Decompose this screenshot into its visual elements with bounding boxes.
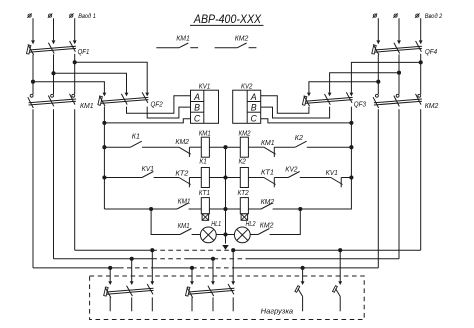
contactor KM1 — [29, 99, 76, 103]
svg-text:В: В — [251, 103, 257, 113]
node bus3 single switch tap — [301, 266, 305, 270]
svg-text:К1: К1 — [199, 157, 206, 166]
node left bus KV1 tap — [102, 121, 106, 125]
wire QF4 pole1 down — [377, 55, 379, 94]
wire — [189, 177, 201, 179]
svg-text:KV2: KV2 — [241, 81, 253, 90]
wire QF1 pole1 down — [32, 55, 34, 94]
svg-text:В: В — [194, 103, 200, 113]
wire QF1 pole3 to QF2 pole3 — [75, 62, 148, 92]
wire KM1 pole3 to bus1 — [74, 109, 76, 250]
svg-text:КТ1: КТ1 — [199, 188, 210, 197]
wire load bus 2 — [54, 258, 153, 260]
svg-text:QF1: QF1 — [78, 47, 90, 56]
input 2 phase terminal 2 — [394, 14, 397, 17]
svg-text:К2: К2 — [239, 157, 247, 166]
wire row2 right — [341, 177, 351, 179]
wire left control bus — [103, 107, 105, 209]
wire KM1 pole1 to bus3 — [32, 109, 34, 268]
svg-text:КМ2: КМ2 — [260, 221, 274, 230]
wire — [209, 208, 240, 210]
wire drop to load switch1 pole2 — [131, 259, 133, 282]
wire row4 branch left — [151, 209, 180, 235]
svg-text:КМ2: КМ2 — [235, 34, 249, 43]
node bus3 drop1 — [108, 266, 112, 270]
svg-text:QF2: QF2 — [151, 100, 164, 109]
wire drop to load switch2 pole3 — [232, 250, 234, 281]
svg-text:КМ2: КМ2 — [425, 101, 439, 110]
svg-text:KV1: KV1 — [142, 164, 154, 173]
wire KM2 pole3 to bus1 — [420, 109, 422, 250]
wire — [192, 234, 201, 236]
wire load bus 1 — [75, 249, 153, 251]
wire — [274, 177, 288, 179]
circuit breaker QF2 — [100, 97, 148, 101]
wire right control bus — [300, 107, 351, 209]
node left bus row2 — [102, 175, 106, 179]
node row3 branch left — [149, 207, 153, 211]
input 2 phase terminal 1 — [373, 14, 376, 17]
wire bus tap to KV1 C — [104, 119, 190, 123]
wire — [216, 234, 234, 236]
wire QF4 pole2 down — [398, 54, 400, 94]
wire — [189, 208, 202, 210]
input 1 phase terminal 3 — [70, 14, 73, 17]
wire drop to single switch1 — [302, 268, 304, 282]
node center bus row4 — [223, 232, 227, 236]
input 2 phase terminal 3 — [416, 14, 419, 17]
svg-text:КТ1: КТ1 — [261, 167, 274, 176]
circuit breaker QF1 — [29, 46, 76, 50]
svg-text:КМ1: КМ1 — [178, 221, 190, 230]
svg-text:С: С — [194, 114, 201, 124]
svg-text:КМ1: КМ1 — [176, 34, 190, 43]
wire — [248, 208, 261, 210]
node bus1 single switch tap — [338, 248, 342, 252]
svg-text:QF4: QF4 — [425, 47, 437, 56]
wire KM2 pole1 to bus3 — [377, 109, 379, 268]
wire — [142, 146, 179, 148]
wire QF1 pole2 to QF2 pole2 — [54, 73, 127, 92]
node bus2 drop2 — [211, 257, 215, 261]
svg-text:Ввод 1: Ввод 1 — [78, 12, 96, 20]
wire center control bus — [225, 147, 227, 243]
wire drop to load switch2 pole2 — [212, 259, 214, 282]
circuit breaker QF3 — [305, 97, 353, 101]
svg-text:Нагрузка: Нагрузка — [261, 309, 294, 316]
wire — [248, 177, 264, 179]
node center bus row2 — [223, 175, 227, 179]
node QF1 pole1 tap — [31, 80, 35, 84]
node right bus row1 — [349, 145, 353, 149]
wire drop to single switch2 — [339, 250, 341, 281]
wire row3 left — [104, 208, 177, 210]
wire — [248, 146, 264, 148]
contactor KM2 — [374, 99, 422, 103]
wire row2 left — [104, 177, 142, 179]
load switch 2 (3-pole) — [188, 288, 234, 292]
node row3 branch right — [298, 207, 302, 211]
wire KM1 pole2 to bus2 — [53, 109, 55, 258]
circuit breaker QF4 — [374, 46, 422, 50]
single load switch 2 — [333, 286, 338, 293]
wire drop to load switch1 pole1 — [109, 268, 111, 282]
node bus1 drop2 — [231, 248, 235, 252]
wire — [209, 177, 240, 179]
wire QF4 pole1 to QF3 pole1 — [309, 82, 378, 93]
svg-text:А: А — [193, 92, 200, 102]
svg-text:КМ1: КМ1 — [178, 196, 191, 205]
node QF4 pole1 tap — [376, 80, 380, 84]
load cabinet dashed box — [90, 276, 365, 320]
svg-text:KV2: KV2 — [285, 165, 298, 174]
svg-text:HL1: HL1 — [211, 219, 221, 228]
svg-text:АВР-400-ХХХ: АВР-400-ХХХ — [193, 12, 262, 26]
wire QF1 pole2 down — [53, 54, 55, 94]
wire — [274, 146, 295, 148]
wire — [250, 234, 258, 236]
node right bus row2 — [349, 175, 353, 179]
svg-text:КМ2: КМ2 — [261, 197, 275, 206]
wire — [300, 177, 331, 179]
node center bus row1 — [223, 145, 227, 149]
wire QF3 pole1 to KV2 A — [261, 96, 309, 114]
svg-text:KV1: KV1 — [326, 168, 338, 177]
wire row1 right — [307, 146, 352, 148]
node bus2 drop1 — [130, 257, 134, 261]
wire KM2 pole2 to bus2 — [398, 109, 400, 258]
wire — [189, 146, 201, 148]
wire QF4 pole2 to QF3 pole2 — [330, 73, 399, 93]
node center bus row3 — [223, 207, 227, 211]
svg-text:К1: К1 — [132, 132, 140, 141]
wire QF1 pole1 to QF2 pole1 — [33, 82, 104, 93]
svg-text:К2: К2 — [295, 133, 304, 142]
wire QF2 pole3 to KV1 B — [147, 107, 190, 118]
single load switch 1 — [295, 286, 300, 293]
input 1 phase terminal 1 — [28, 14, 31, 17]
wire — [209, 146, 240, 148]
svg-text:КМ1: КМ1 — [80, 101, 94, 110]
wire — [154, 177, 179, 179]
svg-text:КМ2: КМ2 — [239, 128, 252, 137]
node QF4 pole2 tap — [397, 71, 401, 75]
svg-text:КМ2: КМ2 — [175, 137, 189, 146]
node QF4 pole3 tap — [419, 60, 423, 64]
wire QF1 pole3 down — [74, 54, 76, 94]
svg-text:А: А — [250, 92, 257, 102]
svg-text:KV1: KV1 — [199, 81, 211, 90]
load switch 1 (3-pole) — [106, 288, 153, 292]
svg-text:Ввод 2: Ввод 2 — [425, 12, 443, 20]
wire QF4 pole3 down — [420, 54, 422, 94]
node QF1 pole3 tap — [73, 60, 77, 64]
svg-text:QF3: QF3 — [354, 100, 367, 109]
node right bus KV2 tap — [349, 121, 353, 125]
node bus1 drop1 — [150, 248, 154, 252]
wire drop to load switch2 pole1 — [191, 268, 193, 282]
wire QF2 pole2 to KV1 A — [127, 96, 191, 114]
node left bus row1 — [102, 145, 106, 149]
node bus3 drop2 — [190, 266, 194, 270]
input 1 phase terminal 2 — [49, 14, 52, 17]
wire row1 left — [104, 146, 130, 148]
svg-text:HL2: HL2 — [246, 219, 257, 228]
svg-text:КМ1: КМ1 — [199, 128, 211, 137]
node QF1 pole2 tap — [51, 71, 55, 75]
svg-text:КМ1: КМ1 — [261, 138, 275, 147]
wire bus tap to KV2 C — [261, 119, 352, 123]
svg-text:С: С — [251, 114, 258, 124]
wire load bus 3 — [33, 267, 119, 269]
wire QF3 pole2 to KV2 B — [261, 107, 330, 118]
wire row4 branch right — [270, 209, 301, 235]
wire QF4 pole3 to QF3 pole3 — [351, 62, 420, 92]
wire drop to load switch1 pole3 — [151, 250, 153, 281]
svg-text:КТ2: КТ2 — [238, 188, 250, 197]
svg-text:КТ2: КТ2 — [175, 169, 189, 178]
wire row3 right — [273, 208, 352, 210]
